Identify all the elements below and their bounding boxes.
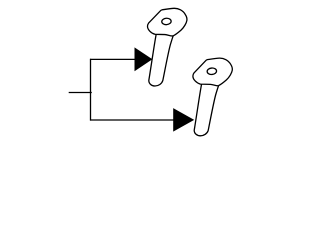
wire left stub [69,92,92,94]
wire vertical bus [90,59,92,121]
arrowhead to key 2 [173,108,194,132]
key 2 head [193,58,232,86]
key 1 [147,8,186,86]
wire bottom branch [90,119,174,121]
key 1 head [147,8,186,36]
key 2 [193,58,232,136]
key 2 shaft [194,85,218,136]
key 2 head hole [207,68,217,75]
arrowhead to key 1 [135,47,153,71]
wire top branch [90,58,136,60]
key 1 head hole [161,18,171,25]
key 1 shaft [149,35,173,86]
